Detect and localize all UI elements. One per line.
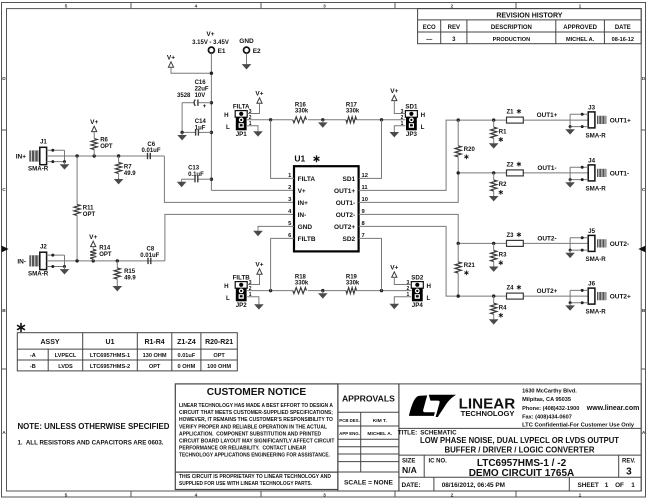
connector J5 SMA-R [586,228,630,263]
svg-text:SCALE = NONE: SCALE = NONE [344,479,394,486]
svg-text:DATE: DATE [615,25,631,31]
jumper JP4 (SD2) [407,274,432,309]
svg-text:NOTE: UNLESS OTHERWISE SPECIFI: NOTE: UNLESS OTHERWISE SPECIFIED [18,422,170,431]
svg-text:FILTA: FILTA [298,176,316,183]
capacitor C14 1uF [180,119,211,136]
ground JP1 [253,129,263,137]
impedance Z1 [507,109,524,123]
svg-text:2: 2 [407,286,410,292]
revision history table [418,9,642,44]
connector J3 SMA-R [586,105,632,140]
wire JP3 pin1 to ground [394,126,405,130]
svg-text:V+: V+ [390,88,398,95]
svg-text:OUT1+: OUT1+ [334,188,355,195]
svg-text:3.15V - 3.45V: 3.15V - 3.45V [192,40,229,46]
svg-text:DESCRIPTION: DESCRIPTION [491,25,532,31]
Linear Technology logo [409,395,516,418]
wire J1 shield stubs [47,149,66,163]
svg-text:22uF: 22uF [195,87,209,93]
svg-text:0.01uF: 0.01uF [178,353,196,359]
wire J4 shield stubs [569,166,589,181]
wire OUT1+ row [457,112,589,122]
wire SD2 to U1 pin7 [359,238,382,290]
svg-text:LTC Confidential-For Customer: LTC Confidential-For Customer Use Only [522,423,635,429]
svg-text:MICHEL A.: MICHEL A. [566,37,595,43]
svg-text:SD1: SD1 [343,176,356,183]
resistor R20 [455,120,475,173]
svg-text:R11: R11 [83,205,94,211]
ground JP3 [390,129,400,137]
svg-text:TECHNOLOGY: TECHNOLOGY [461,409,515,418]
svg-text:V+: V+ [298,188,306,195]
svg-text:Z1: Z1 [507,110,515,116]
svg-text:LTC6957HMS-2: LTC6957HMS-2 [90,364,130,370]
svg-text:Fax: (408)434-0607: Fax: (408)434-0607 [522,414,572,420]
svg-text:L: L [226,124,230,131]
svg-text:1: 1 [605,482,609,489]
capacitor C6 0.01uF [142,142,161,159]
svg-text:TITLE:: TITLE: [398,429,417,436]
capacitor C13 0.1uF [182,166,212,183]
svg-text:V+: V+ [255,91,263,98]
wire FILTA row [247,118,405,121]
power symbol V+ R14 [89,234,97,247]
wire J2 shield stubs [47,254,66,268]
jumper JP3 (SD1) [401,103,426,138]
svg-text:OUT1+: OUT1+ [537,112,558,119]
svg-text:JP3: JP3 [406,131,418,138]
svg-text:0 OHM: 0 OHM [178,364,196,370]
resistor R1 [491,120,508,142]
svg-text:OPT: OPT [213,353,225,359]
svg-text:U1: U1 [294,153,305,163]
assembly options table [17,333,237,371]
svg-text:APP ENG.: APP ENG. [339,431,360,437]
svg-text:R15: R15 [124,269,136,275]
svg-text:C8: C8 [147,247,155,253]
svg-text:THIS CIRCUIT IS PROPRIETARY TO: THIS CIRCUIT IS PROPRIETARY TO LINEAR TE… [179,474,331,480]
impedance Z3 [507,232,524,246]
ground FILTA divider [318,120,328,128]
connector J4 SMA-R [586,158,630,193]
svg-text:5: 5 [65,492,68,498]
svg-text:R6: R6 [100,138,108,144]
svg-text:OUT2+: OUT2+ [334,224,355,231]
svg-text:C: C [642,187,646,193]
wire JP1 pin1 to ground [247,126,258,129]
svg-text:OUT2+: OUT2+ [537,288,558,295]
svg-text:0.01uF: 0.01uF [140,253,159,259]
capacitor C8 0.01uF [140,247,159,264]
svg-text:3: 3 [323,492,326,498]
svg-text:CIRCUIT THAT MEETS CUSTOMER-SU: CIRCUIT THAT MEETS CUSTOMER-SUPPLIED SPE… [179,410,333,416]
svg-text:FILTB: FILTB [233,274,251,281]
wire J6 shield stubs [569,289,589,304]
wire OUT2+ U1 pin8 to row [359,226,459,296]
wire IN+ from J1 [47,154,165,157]
svg-text:330k: 330k [295,280,309,286]
ground R3 [489,264,499,272]
resistor R18 330k [293,274,309,293]
svg-text:1: 1 [631,482,635,489]
svg-text:Z2: Z2 [507,162,515,168]
impedance Z4 [507,285,524,299]
ground R1 [489,141,499,149]
connector J6 SMA-R [586,281,632,316]
svg-text:Z4: Z4 [507,286,515,292]
svg-text:E1: E1 [218,48,226,55]
svg-text:V+: V+ [390,265,398,272]
wire SD1 to U1 pin12 [359,120,382,179]
power symbol V+ JP4 [390,265,398,278]
svg-text:FILTA: FILTA [233,103,250,110]
svg-text:B: B [2,308,6,314]
resistor R16 330k [293,102,309,122]
svg-text:JP1: JP1 [236,131,248,138]
svg-text:OPT: OPT [100,144,113,150]
svg-text:IN-: IN- [17,258,26,265]
power symbol V+ JP2 [255,262,263,275]
svg-text:SD2: SD2 [343,236,356,243]
resistor R15 49.9 [114,261,136,284]
connector J2 SMA-R [17,244,48,278]
svg-text:2: 2 [288,185,291,191]
svg-text:FILTB: FILTB [298,236,316,243]
svg-text:330k: 330k [346,280,360,286]
capacitor C16 22uF 10V (3528) [177,80,211,110]
svg-text:D: D [642,76,646,82]
wire OUT2+ row [457,288,589,298]
svg-text:OUT1-: OUT1- [537,165,556,172]
svg-text:08-16-12: 08-16-12 [612,37,634,43]
svg-text:C14: C14 [195,119,207,125]
svg-text:SIZE: SIZE [402,458,415,464]
svg-text:1: 1 [249,292,252,298]
svg-text:CIRCUIT BOARD LAYOUT MAY SIGNI: CIRCUIT BOARD LAYOUT MAY SIGNIFICANTLY A… [179,439,335,445]
svg-text:REVISION HISTORY: REVISION HISTORY [496,12,562,19]
power symbol V+ R6 [90,119,98,132]
ground JP2 [254,302,264,310]
resistor R6 OPT [91,132,113,156]
wire V+ arrow to bus [171,67,211,73]
svg-text:HOWEVER, IT REMAINS THE CUSTOM: HOWEVER, IT REMAINS THE CUSTOMER'S RESPO… [179,417,333,423]
approvals table [338,384,399,491]
ground R7 [114,176,124,184]
svg-text:LVDS: LVDS [58,364,73,370]
wire OUT1- U1 pin10 to row [359,173,459,203]
svg-text:SMA-R: SMA-R [28,271,49,278]
svg-text:SUPPLIED FOR USE WITH LINEAR T: SUPPLIED FOR USE WITH LINEAR TECHNOLOGY … [179,481,312,487]
svg-text:4: 4 [195,4,198,10]
wire OUT1+ U1 pin11 to row [359,120,459,190]
svg-text:VERIFY PROPER AND RELIABLE OPE: VERIFY PROPER AND RELIABLE OPERATION IN … [179,424,328,430]
terminal E2 GND [239,38,261,62]
svg-text:5: 5 [65,4,68,10]
ground J4 shield [565,180,575,188]
svg-text:OUT1+: OUT1+ [610,117,631,124]
ground C13 [177,179,187,187]
ground JP4 [390,301,400,309]
svg-text:J3: J3 [588,105,595,112]
resistor R21 [455,243,475,296]
svg-text:4: 4 [195,492,198,498]
svg-text:V+: V+ [206,31,214,38]
svg-text:E2: E2 [253,48,261,55]
op-amp U1 LTC6957 [288,153,368,251]
wire JP1 pin3 to V+ [247,103,259,113]
svg-text:REV.: REV. [622,458,636,464]
svg-text:OUT1-: OUT1- [610,170,630,177]
svg-text:+: + [203,103,207,110]
impedance Z2 [507,162,524,176]
svg-text:49.9: 49.9 [124,171,136,177]
svg-text:R20: R20 [464,147,476,153]
svg-text:BUFFER / DRIVER / LOGIC CONVER: BUFFER / DRIVER / LOGIC CONVERTER [445,444,595,454]
address block [522,389,639,429]
wire JP2 pin1 to ground [247,297,259,302]
svg-text:R21: R21 [464,263,476,269]
svg-text:R7: R7 [124,164,132,170]
power symbol V+ main rail [167,55,175,68]
svg-text:A: A [642,430,646,436]
svg-text:PRODUCTION: PRODUCTION [493,37,531,43]
svg-text:330k: 330k [295,108,309,114]
svg-text:330k: 330k [346,108,360,114]
svg-text:OUT2-: OUT2- [610,241,630,248]
svg-text:PCB DES.: PCB DES. [339,418,360,424]
resistor R19 330k [346,274,360,293]
svg-text:OUT1-: OUT1- [336,200,356,207]
svg-text:3528: 3528 [177,93,191,99]
svg-text:TECHNOLOGY APPLICATIONS ENGINE: TECHNOLOGY APPLICATIONS ENGINEERING FOR … [179,453,330,459]
svg-text:DEMO CIRCUIT 1765A: DEMO CIRCUIT 1765A [469,468,575,479]
wire V+ bus to U1 pin 2 [211,189,294,191]
svg-text:V+: V+ [255,262,263,269]
svg-text:Z1-Z4: Z1-Z4 [177,339,196,346]
resistor R4 [491,296,508,318]
svg-text:3: 3 [323,4,326,10]
wire JP3 pin3 to V+ [394,101,405,114]
svg-text:2: 2 [451,492,454,498]
svg-text:OPT: OPT [149,364,161,370]
ground FILTB divider [318,291,328,299]
wire OUT1- row [457,165,589,175]
svg-text:OPT: OPT [99,252,112,258]
svg-text:L: L [427,295,431,302]
svg-text:49.9: 49.9 [124,276,136,282]
ground E2 [242,62,252,70]
svg-text:Milpitas, CA 95035: Milpitas, CA 95035 [522,397,571,403]
resistor R7 49.9 [116,156,137,177]
wire JP2 pin3 to V+ [247,274,259,284]
ground U1 pin5 [258,226,294,228]
svg-text:R20-R21: R20-R21 [205,339,233,346]
svg-text:1: 1 [579,492,582,498]
wire JP4 pin3 to V+ [394,277,411,284]
svg-text:V+: V+ [89,234,97,241]
ground J2 shield [60,267,70,275]
svg-text:V+: V+ [90,119,98,126]
wire FILTB row [247,289,411,292]
svg-text:IN+: IN+ [16,153,27,160]
assembly options note star [17,323,25,332]
svg-text:—: — [426,37,432,43]
svg-text:08/16/2012, 06:45 PM: 08/16/2012, 06:45 PM [442,482,505,489]
svg-text:LINEAR TECHNOLOGY HAS MADE A B: LINEAR TECHNOLOGY HAS MADE A BEST EFFORT… [179,403,333,409]
svg-text:U1: U1 [106,339,115,346]
svg-text:OF: OF [615,482,624,489]
svg-text:V+: V+ [167,55,175,62]
svg-text:100 OHM: 100 OHM [207,364,231,370]
svg-text:MICHEL A.: MICHEL A. [367,431,392,437]
wire IN- from J2 [47,259,165,262]
svg-text:Z3: Z3 [507,233,515,239]
svg-text:J2: J2 [40,244,47,251]
svg-text:OUT2-: OUT2- [336,212,356,219]
svg-text:-A: -A [30,353,36,359]
svg-text:1630 McCarthy Blvd.: 1630 McCarthy Blvd. [522,389,577,395]
svg-text:JP2: JP2 [236,302,248,309]
svg-text:1: 1 [407,292,410,298]
svg-text:KIM T.: KIM T. [373,418,388,424]
wire FILTA to U1 pin1 [271,120,294,179]
svg-text:C13: C13 [188,166,200,172]
svg-text:SHEET: SHEET [578,482,599,489]
resistor R3 [491,243,508,265]
svg-text:R1: R1 [499,129,507,135]
svg-text:CUSTOMER NOTICE: CUSTOMER NOTICE [207,387,307,398]
svg-text:APPLICATION. COMPONENT SUBSTI: APPLICATION. COMPONENT SUBSTITUTION AND … [179,431,321,437]
svg-text:www.linear.com: www.linear.com [586,405,639,412]
power symbol V+ JP3 [390,88,398,101]
svg-text:LVPECL: LVPECL [55,353,77,359]
svg-text:Phone: (408)432-1900: Phone: (408)432-1900 [522,406,579,412]
resistor R11 OPT [74,156,95,261]
svg-text:C16: C16 [195,80,207,86]
svg-text:ASSY: ASSY [40,339,59,346]
ground U1 pin5 [253,228,263,236]
svg-text:R14: R14 [99,246,111,252]
wire IN- to U1 pin 4 [165,214,294,261]
ground C14/C16 [177,132,187,140]
terminal E1 V+ [192,31,229,55]
svg-text:H: H [427,283,432,290]
jumper JP2 (FILTB) [224,274,252,309]
svg-text:2: 2 [401,115,404,121]
wire JP4 pin1 to ground [394,297,411,301]
customer notice box [175,384,338,490]
svg-text:-B: -B [30,364,36,370]
note text [18,422,170,447]
jumper JP1 (FILTA) [224,103,252,138]
svg-text:SD1: SD1 [405,103,418,110]
svg-text:R3: R3 [499,253,507,259]
svg-text:0.1uF: 0.1uF [188,172,204,178]
wire J3 shield stubs [569,113,589,128]
svg-text:REV: REV [448,25,460,31]
svg-text:H: H [421,112,426,119]
svg-text:C6: C6 [147,142,155,148]
ground R15 [113,283,123,291]
svg-text:10V: 10V [195,93,206,99]
wire V+ bus vertical [210,53,213,190]
ground J6 shield [565,303,575,311]
svg-text:3: 3 [626,466,632,477]
svg-text:L: L [226,295,230,302]
svg-text:SD2: SD2 [411,274,424,281]
svg-text:OPT: OPT [83,212,96,218]
resistor R14 OPT [90,246,112,261]
svg-text:PERFORMANCE OR RELIABILITY. C: PERFORMANCE OR RELIABILITY. CONTACT LINE… [179,446,306,452]
wire C16/C14 left leg [181,103,183,133]
svg-text:C: C [2,187,6,193]
svg-text:R2: R2 [499,182,507,188]
ground J1 shield [60,162,70,170]
svg-text:OUT2+: OUT2+ [610,294,631,301]
svg-text:H: H [224,283,229,290]
svg-text:SMA-R: SMA-R [28,166,49,173]
svg-text:DATE:: DATE: [402,482,421,489]
svg-text:GND: GND [298,224,313,231]
ground J5 shield [565,250,575,258]
svg-text:B: B [642,308,646,314]
svg-text:GND: GND [239,38,254,45]
svg-text:IN+: IN+ [298,200,309,207]
svg-text:JP4: JP4 [412,302,424,309]
svg-text:J5: J5 [588,228,595,235]
wire OUT2- U1 pin9 to row [359,214,459,243]
wire IN+ to U1 pin 3 [164,156,294,202]
svg-text:J6: J6 [588,281,595,288]
wire OUT2- row [457,236,589,246]
svg-text:D: D [2,76,6,82]
resistor R2 [491,173,508,195]
svg-text:H: H [224,112,229,119]
svg-text:A: A [2,430,6,436]
svg-text:IN-: IN- [298,212,307,219]
svg-text:R1-R4: R1-R4 [144,339,164,346]
wire J5 shield stubs [569,236,589,251]
svg-text:OUT2-: OUT2- [537,236,556,243]
wire FILTB to U1 pin6 [271,238,294,290]
svg-text:APPROVED: APPROVED [563,25,597,31]
svg-text:J4: J4 [588,158,595,165]
svg-text:APPROVALS: APPROVALS [342,393,395,403]
ground R4 [489,317,499,325]
resistor R17 330k [346,102,360,122]
power symbol V+ JP1 [255,91,263,104]
svg-text:SMA-R: SMA-R [586,185,607,192]
svg-text:SMA-R: SMA-R [586,256,607,263]
connector J1 SMA-R [16,139,49,173]
svg-text:SMA-R: SMA-R [586,132,607,139]
svg-text:1uF: 1uF [195,125,206,131]
svg-text:1. ALL RESISTORS AND CAPACITO: 1. ALL RESISTORS AND CAPACITORS ARE 0603… [18,440,164,447]
title block [398,384,641,491]
svg-text:LOW PHASE NOISE, DUAL LVPECL O: LOW PHASE NOISE, DUAL LVPECL OR LVDS OUT… [420,435,620,445]
svg-text:ECO: ECO [423,25,436,31]
svg-text:SMA-R: SMA-R [586,309,607,316]
svg-text:IC NO.: IC NO. [429,458,448,464]
svg-text:LTC6957HMS-1: LTC6957HMS-1 [90,353,130,359]
svg-text:130 OHM: 130 OHM [143,353,167,359]
svg-text:0.01uF: 0.01uF [142,148,161,154]
svg-text:R4: R4 [499,305,507,311]
svg-text:N/A: N/A [402,465,417,475]
svg-text:L: L [421,124,425,131]
svg-text:J1: J1 [40,139,47,146]
ground R2 [489,193,499,201]
